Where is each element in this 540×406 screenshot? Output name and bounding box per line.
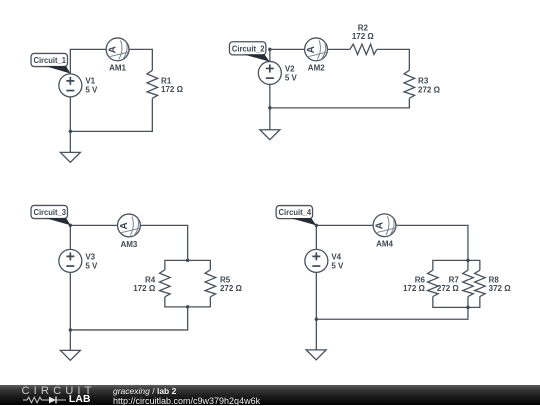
wire node to AM3 [70, 224, 117, 226]
node junction c4 par top [466, 259, 469, 262]
node flag Circuit_2 [229, 42, 265, 55]
node junction c3 par top [186, 259, 189, 262]
voltage source V2 [258, 61, 281, 84]
svg-text:Circuit_1: Circuit_1 [33, 56, 66, 65]
svg-text:172 Ω: 172 Ω [161, 85, 184, 94]
voltage source V1 [59, 74, 82, 97]
svg-text:172 Ω: 172 Ω [133, 284, 156, 293]
ground circuit4 [306, 350, 326, 360]
wire node to AM4 [316, 224, 373, 226]
node flag Circuit_3 [31, 205, 67, 218]
logo diode [49, 397, 56, 404]
svg-text:V4: V4 [331, 253, 341, 262]
logo resistor zigzag [27, 397, 42, 403]
svg-text:272 Ω: 272 Ω [418, 86, 441, 95]
caption line 1 [113, 386, 176, 396]
node junction c4 bottom-left [315, 318, 318, 321]
stub R7 bottom [467, 297, 469, 308]
node junction c4 par bottom [466, 306, 469, 309]
resistor R1 [147, 70, 158, 98]
svg-text:AM1: AM1 [109, 64, 126, 73]
node junction c3 bottom-left [69, 328, 72, 331]
wire parallel bottom to rail [316, 307, 468, 319]
svg-text:Circuit_2: Circuit_2 [232, 44, 265, 53]
svg-text:AM2: AM2 [308, 64, 325, 73]
node junction c3 top-left [69, 224, 72, 227]
voltage source V4 [305, 249, 328, 272]
resistor R8 [475, 270, 486, 296]
svg-text:A: A [119, 222, 130, 229]
node junction circuit1 bottom [69, 130, 72, 133]
resistor R4 [160, 270, 171, 297]
logo wire mid [42, 399, 49, 401]
node junction c4 top-left [315, 224, 318, 227]
svg-text:V2: V2 [285, 65, 295, 74]
svg-text:AM3: AM3 [121, 240, 138, 249]
resistor R2 [350, 44, 377, 54]
resistor R6 [428, 270, 439, 296]
svg-text:272 Ω: 272 Ω [437, 284, 460, 293]
node junction circuit2 bottom [268, 106, 271, 109]
ammeter AM4 [373, 214, 396, 237]
wire V2 top to AM2 [270, 49, 305, 61]
svg-text:A: A [375, 222, 386, 229]
node junction c3 par bottom [186, 305, 189, 308]
node flag Circuit_4 [276, 206, 312, 219]
resistor R3 [404, 70, 415, 98]
wire V4 bottom to ground [315, 272, 317, 350]
wire AM3 to parallel top bar [140, 225, 187, 260]
ground circuit2 [260, 130, 280, 140]
svg-text:272 Ω: 272 Ω [220, 284, 243, 293]
wire R2 to R3 top [377, 49, 410, 70]
ground circuit1 [60, 152, 80, 162]
wire node to V3 top [69, 225, 71, 249]
svg-text:R1: R1 [161, 76, 172, 85]
wire R1 bottom to bottom rail [70, 98, 152, 131]
wire V1 top to AM1 [70, 49, 106, 73]
svg-text:5 V: 5 V [85, 86, 98, 95]
ammeter AM1 [106, 38, 129, 61]
svg-text:172 Ω: 172 Ω [403, 284, 426, 293]
footer bar [0, 385, 540, 405]
caption line 2 [113, 396, 260, 406]
logo wire left [23, 399, 27, 401]
ammeter AM2 [305, 38, 328, 61]
svg-text:Circuit_3: Circuit_3 [33, 208, 66, 217]
wire AM4 to parallel top bar [396, 225, 468, 260]
stub R7 top [467, 260, 469, 270]
svg-text:372 Ω: 372 Ω [489, 284, 512, 293]
wire V2 bottom to ground [269, 84, 271, 129]
ground circuit3 [60, 350, 80, 360]
svg-text:V3: V3 [85, 253, 95, 262]
svg-text:5 V: 5 V [285, 74, 298, 83]
svg-text:Circuit_4: Circuit_4 [279, 208, 312, 217]
wire R3 bottom to bottom rail [270, 98, 410, 108]
CircuitLab logo CIRCUIT text [22, 385, 96, 397]
svg-text:A: A [306, 46, 317, 53]
logo wire right [56, 399, 66, 401]
wire V1 bottom to ground [69, 97, 71, 152]
wire parallel bottom to rail [70, 307, 187, 330]
parallel top bar c3 [165, 260, 211, 270]
svg-text:R3: R3 [418, 77, 429, 86]
CircuitLab logo mark (resistor + diode) [22, 395, 72, 405]
node flag Circuit_1 [31, 53, 67, 66]
parallel bottom bar c3 [165, 297, 211, 307]
svg-text:5 V: 5 V [85, 262, 98, 271]
parallel top bar c4 [433, 260, 480, 270]
voltage source V3 [59, 249, 82, 272]
node junction circuit2 top [268, 48, 271, 51]
wire AM2 to R2 [327, 48, 349, 50]
wire V3 bottom to ground [69, 272, 71, 350]
svg-text:AM4: AM4 [376, 240, 393, 249]
svg-text:5 V: 5 V [331, 262, 344, 271]
wire AM1 to R1 top [129, 49, 152, 70]
svg-text:V1: V1 [85, 77, 95, 86]
svg-text:A: A [108, 46, 119, 53]
svg-text:172 Ω: 172 Ω [352, 32, 375, 41]
ammeter AM3 [118, 214, 141, 237]
resistor R7 [463, 270, 474, 296]
parallel bottom bar c4 [433, 297, 480, 308]
wire node to V4 top [315, 225, 317, 249]
resistor R5 [205, 270, 216, 297]
